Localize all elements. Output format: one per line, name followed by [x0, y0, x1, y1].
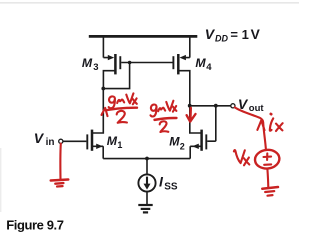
- svg-text:3: 3: [93, 62, 98, 73]
- svg-text:2: 2: [180, 141, 185, 151]
- svg-text:M: M: [195, 56, 206, 70]
- svg-text:M: M: [169, 135, 180, 149]
- svg-text:V: V: [251, 27, 261, 42]
- svg-text:=: =: [230, 27, 238, 42]
- svg-text:V: V: [34, 130, 45, 146]
- svg-text:out: out: [249, 103, 265, 114]
- svg-text:Figure 9.7: Figure 9.7: [6, 217, 64, 232]
- svg-text:M: M: [82, 56, 93, 70]
- svg-text:1: 1: [117, 140, 122, 150]
- svg-text:SS: SS: [164, 182, 178, 193]
- svg-text:DD: DD: [215, 33, 228, 43]
- svg-text:1: 1: [242, 27, 249, 42]
- svg-text:M: M: [107, 134, 118, 148]
- svg-text:in: in: [46, 137, 55, 148]
- svg-text:4: 4: [206, 62, 212, 73]
